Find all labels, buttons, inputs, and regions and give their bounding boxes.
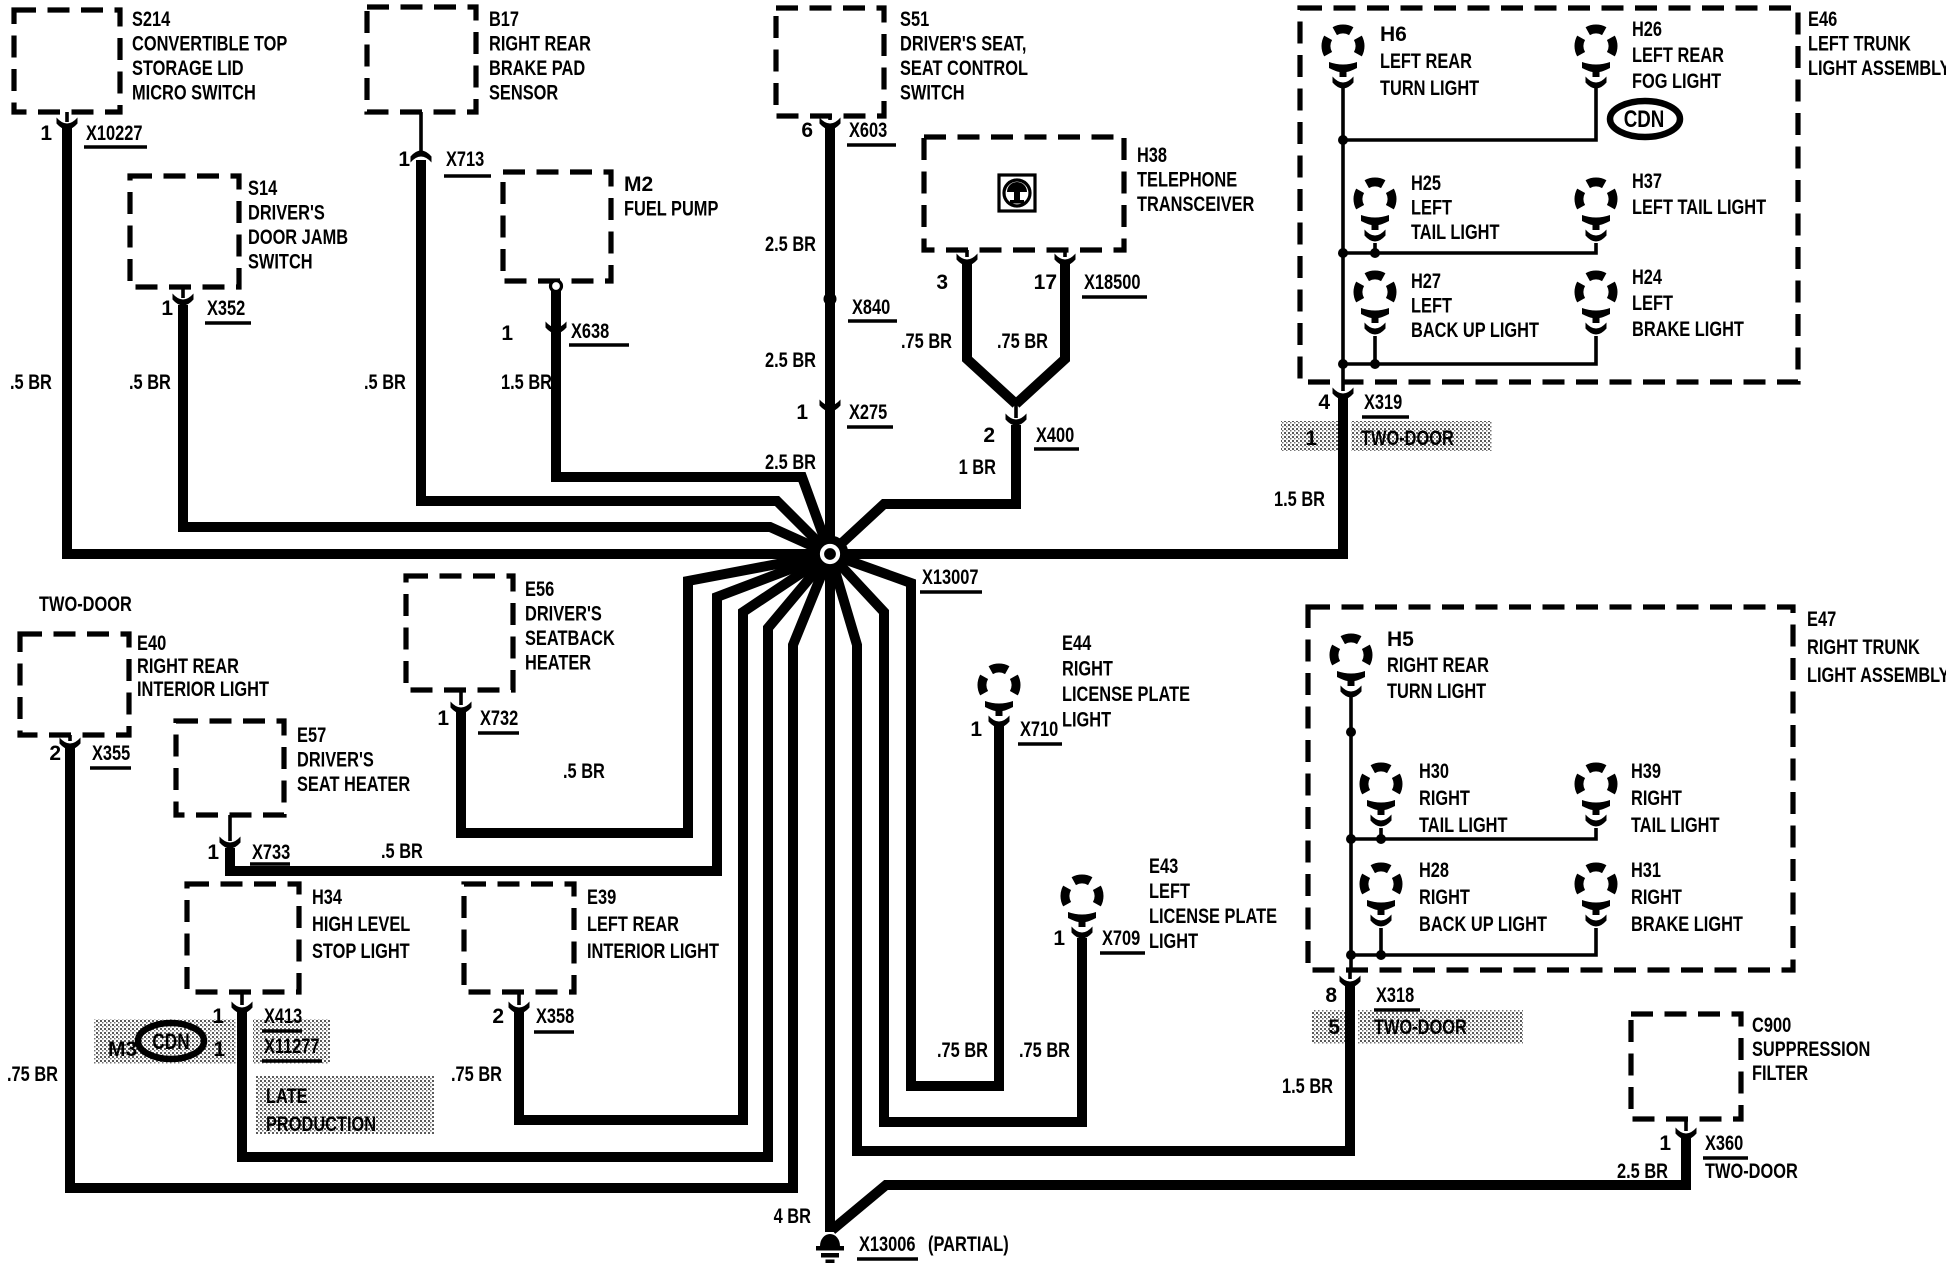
- svg-text:SEATBACK: SEATBACK: [525, 627, 615, 650]
- svg-text:.5 BR: .5 BR: [381, 840, 423, 863]
- svg-text:.75 BR: .75 BR: [7, 1063, 58, 1086]
- svg-text:17: 17: [1034, 271, 1057, 294]
- svg-text:TURN LIGHT: TURN LIGHT: [1387, 680, 1486, 703]
- svg-text:1.5 BR: 1.5 BR: [1282, 1075, 1333, 1098]
- svg-text:1: 1: [437, 707, 449, 730]
- svg-text:.75 BR: .75 BR: [937, 1039, 988, 1062]
- svg-text:TAIL LIGHT: TAIL LIGHT: [1419, 814, 1508, 837]
- svg-text:H37: H37: [1632, 170, 1662, 193]
- svg-text:LEFT: LEFT: [1632, 292, 1673, 315]
- svg-text:DOOR JAMB: DOOR JAMB: [248, 226, 348, 249]
- svg-text:HEATER: HEATER: [525, 652, 591, 675]
- svg-text:X638: X638: [571, 320, 609, 343]
- svg-text:X358: X358: [536, 1005, 574, 1028]
- svg-text:2.5 BR: 2.5 BR: [1617, 1160, 1668, 1183]
- svg-text:E39: E39: [587, 886, 616, 909]
- svg-text:C900: C900: [1752, 1014, 1791, 1037]
- svg-text:S51: S51: [900, 8, 929, 31]
- svg-text:.75 BR: .75 BR: [997, 330, 1048, 353]
- svg-text:FUEL PUMP: FUEL PUMP: [624, 198, 718, 221]
- svg-text:E44: E44: [1062, 632, 1091, 655]
- svg-text:LICENSE PLATE: LICENSE PLATE: [1149, 905, 1277, 928]
- svg-text:S14: S14: [248, 177, 277, 200]
- svg-text:LEFT REAR: LEFT REAR: [1632, 44, 1724, 67]
- svg-text:X13007: X13007: [922, 566, 979, 589]
- svg-text:TAIL LIGHT: TAIL LIGHT: [1411, 221, 1500, 244]
- svg-text:5: 5: [1328, 1016, 1340, 1039]
- svg-text:PRODUCTION: PRODUCTION: [266, 1113, 376, 1136]
- svg-text:X710: X710: [1020, 718, 1058, 741]
- svg-text:RIGHT: RIGHT: [1419, 886, 1470, 909]
- svg-text:3: 3: [936, 271, 948, 294]
- svg-text:BACK UP LIGHT: BACK UP LIGHT: [1419, 913, 1547, 936]
- svg-text:1: 1: [1305, 427, 1317, 450]
- svg-text:2.5 BR: 2.5 BR: [765, 451, 816, 474]
- svg-text:H6: H6: [1380, 23, 1407, 46]
- svg-text:LEFT: LEFT: [1411, 295, 1452, 318]
- svg-text:CDN: CDN: [1624, 106, 1665, 133]
- svg-text:H38: H38: [1137, 144, 1167, 167]
- svg-text:E46: E46: [1808, 8, 1837, 31]
- svg-text:H28: H28: [1419, 859, 1449, 882]
- svg-text:1 BR: 1 BR: [959, 456, 996, 479]
- svg-text:2.5 BR: 2.5 BR: [765, 349, 816, 372]
- svg-text:BRAKE LIGHT: BRAKE LIGHT: [1631, 913, 1743, 936]
- svg-text:X352: X352: [207, 297, 245, 320]
- svg-text:RIGHT: RIGHT: [1419, 787, 1470, 810]
- svg-text:X18500: X18500: [1084, 271, 1141, 294]
- svg-text:1: 1: [1053, 927, 1065, 950]
- svg-text:X11277: X11277: [264, 1035, 320, 1058]
- svg-text:2: 2: [983, 424, 995, 447]
- svg-text:X732: X732: [480, 707, 518, 730]
- svg-text:4 BR: 4 BR: [774, 1205, 811, 1228]
- svg-text:CONVERTIBLE TOP: CONVERTIBLE TOP: [132, 33, 287, 56]
- svg-text:S214: S214: [132, 8, 170, 31]
- svg-text:SUPPRESSION: SUPPRESSION: [1752, 1038, 1870, 1061]
- svg-text:1: 1: [207, 841, 219, 864]
- svg-text:1: 1: [40, 122, 52, 145]
- svg-text:X713: X713: [446, 148, 484, 171]
- svg-text:SWITCH: SWITCH: [248, 251, 313, 274]
- svg-text:TRANSCEIVER: TRANSCEIVER: [1137, 193, 1254, 216]
- svg-text:LEFT TRUNK: LEFT TRUNK: [1808, 33, 1911, 56]
- svg-text:LIGHT: LIGHT: [1062, 709, 1111, 732]
- svg-text:X275: X275: [849, 401, 887, 424]
- svg-text:X10227: X10227: [86, 122, 143, 145]
- svg-text:H5: H5: [1387, 628, 1414, 651]
- svg-text:DRIVER'S SEAT,: DRIVER'S SEAT,: [900, 33, 1026, 56]
- svg-text:1: 1: [398, 148, 410, 171]
- svg-text:X355: X355: [92, 742, 130, 765]
- svg-text:FILTER: FILTER: [1752, 1062, 1808, 1085]
- svg-text:2: 2: [49, 742, 61, 765]
- svg-text:MICRO SWITCH: MICRO SWITCH: [132, 82, 256, 105]
- svg-text:BACK UP LIGHT: BACK UP LIGHT: [1411, 319, 1539, 342]
- svg-text:RIGHT: RIGHT: [1631, 787, 1682, 810]
- svg-text:SEAT HEATER: SEAT HEATER: [297, 773, 410, 796]
- svg-text:M3: M3: [108, 1038, 137, 1061]
- svg-text:H39: H39: [1631, 760, 1661, 783]
- svg-text:H24: H24: [1632, 266, 1662, 289]
- svg-text:TWO-DOOR: TWO-DOOR: [39, 593, 132, 616]
- svg-text:RIGHT REAR: RIGHT REAR: [137, 655, 239, 678]
- svg-text:.5 BR: .5 BR: [563, 760, 605, 783]
- svg-text:LICENSE PLATE: LICENSE PLATE: [1062, 683, 1190, 706]
- svg-text:.75 BR: .75 BR: [1019, 1039, 1070, 1062]
- svg-text:.75 BR: .75 BR: [901, 330, 952, 353]
- svg-text:M2: M2: [624, 173, 653, 196]
- svg-text:1.5 BR: 1.5 BR: [1274, 488, 1325, 511]
- svg-text:.5 BR: .5 BR: [129, 371, 171, 394]
- svg-text:LIGHT: LIGHT: [1149, 930, 1198, 953]
- svg-text:LEFT REAR: LEFT REAR: [587, 913, 679, 936]
- svg-text:H26: H26: [1632, 18, 1662, 41]
- svg-text:1: 1: [161, 297, 173, 320]
- svg-text:X603: X603: [849, 119, 887, 142]
- svg-text:H27: H27: [1411, 270, 1441, 293]
- svg-text:RIGHT: RIGHT: [1631, 886, 1682, 909]
- svg-text:CDN: CDN: [152, 1029, 189, 1054]
- svg-text:LATE: LATE: [266, 1085, 308, 1108]
- svg-text:(PARTIAL): (PARTIAL): [928, 1233, 1009, 1256]
- svg-text:E56: E56: [525, 578, 554, 601]
- svg-text:BRAKE PAD: BRAKE PAD: [489, 57, 585, 80]
- svg-text:1: 1: [213, 1038, 225, 1061]
- svg-text:H25: H25: [1411, 172, 1441, 195]
- svg-text:LEFT: LEFT: [1149, 880, 1190, 903]
- svg-text:4: 4: [1318, 391, 1330, 414]
- svg-text:X413: X413: [264, 1005, 302, 1028]
- svg-text:TELEPHONE: TELEPHONE: [1137, 169, 1237, 192]
- svg-text:STORAGE LID: STORAGE LID: [132, 57, 244, 80]
- svg-text:2: 2: [492, 1005, 504, 1028]
- svg-text:E57: E57: [297, 724, 326, 747]
- svg-text:X318: X318: [1376, 984, 1414, 1007]
- svg-text:B17: B17: [489, 8, 519, 31]
- svg-text:FOG LIGHT: FOG LIGHT: [1632, 70, 1721, 93]
- svg-text:.5 BR: .5 BR: [10, 371, 52, 394]
- svg-text:1.5 BR: 1.5 BR: [501, 371, 552, 394]
- svg-text:.5 BR: .5 BR: [364, 371, 406, 394]
- svg-text:.75 BR: .75 BR: [451, 1063, 502, 1086]
- svg-text:SWITCH: SWITCH: [900, 82, 965, 105]
- svg-text:LIGHT ASSEMBLY: LIGHT ASSEMBLY: [1808, 57, 1946, 80]
- svg-text:X13006: X13006: [859, 1233, 916, 1256]
- svg-text:LIGHT ASSEMBLY: LIGHT ASSEMBLY: [1807, 664, 1946, 687]
- svg-text:TURN LIGHT: TURN LIGHT: [1380, 77, 1479, 100]
- svg-text:DRIVER'S: DRIVER'S: [525, 603, 602, 626]
- svg-text:E43: E43: [1149, 855, 1178, 878]
- svg-text:1: 1: [1659, 1132, 1671, 1155]
- svg-text:BRAKE LIGHT: BRAKE LIGHT: [1632, 318, 1744, 341]
- svg-text:LEFT: LEFT: [1411, 197, 1452, 220]
- svg-text:RIGHT REAR: RIGHT REAR: [489, 33, 591, 56]
- svg-text:X733: X733: [252, 841, 290, 864]
- svg-text:1: 1: [212, 1005, 224, 1028]
- svg-text:TWO-DOOR: TWO-DOOR: [1705, 1160, 1798, 1183]
- svg-text:RIGHT TRUNK: RIGHT TRUNK: [1807, 636, 1920, 659]
- svg-text:X400: X400: [1036, 424, 1074, 447]
- svg-text:LEFT REAR: LEFT REAR: [1380, 50, 1472, 73]
- svg-text:STOP LIGHT: STOP LIGHT: [312, 940, 410, 963]
- svg-text:INTERIOR LIGHT: INTERIOR LIGHT: [587, 940, 719, 963]
- svg-text:H34: H34: [312, 886, 342, 909]
- svg-text:SENSOR: SENSOR: [489, 82, 558, 105]
- svg-text:X840: X840: [852, 296, 890, 319]
- svg-text:1: 1: [501, 322, 513, 345]
- svg-text:1: 1: [970, 718, 982, 741]
- svg-text:DRIVER'S: DRIVER'S: [248, 202, 325, 225]
- svg-text:E40: E40: [137, 632, 166, 655]
- svg-text:TWO-DOOR: TWO-DOOR: [1374, 1016, 1467, 1039]
- svg-text:1: 1: [796, 401, 808, 424]
- svg-text:INTERIOR LIGHT: INTERIOR LIGHT: [137, 678, 269, 701]
- svg-text:H30: H30: [1419, 760, 1449, 783]
- svg-text:SEAT CONTROL: SEAT CONTROL: [900, 57, 1028, 80]
- svg-text:DRIVER'S: DRIVER'S: [297, 749, 374, 772]
- svg-text:HIGH LEVEL: HIGH LEVEL: [312, 913, 410, 936]
- svg-text:X360: X360: [1705, 1132, 1743, 1155]
- svg-text:8: 8: [1325, 984, 1337, 1007]
- svg-text:6: 6: [801, 119, 813, 142]
- svg-text:H31: H31: [1631, 859, 1661, 882]
- svg-text:X319: X319: [1364, 391, 1402, 414]
- svg-text:2.5 BR: 2.5 BR: [765, 233, 816, 256]
- svg-text:X709: X709: [1102, 927, 1140, 950]
- svg-text:TWO-DOOR: TWO-DOOR: [1361, 427, 1454, 450]
- svg-text:RIGHT: RIGHT: [1062, 658, 1113, 681]
- svg-text:LEFT TAIL LIGHT: LEFT TAIL LIGHT: [1632, 196, 1766, 219]
- svg-text:E47: E47: [1807, 608, 1836, 631]
- svg-text:RIGHT REAR: RIGHT REAR: [1387, 654, 1489, 677]
- svg-text:TAIL LIGHT: TAIL LIGHT: [1631, 814, 1720, 837]
